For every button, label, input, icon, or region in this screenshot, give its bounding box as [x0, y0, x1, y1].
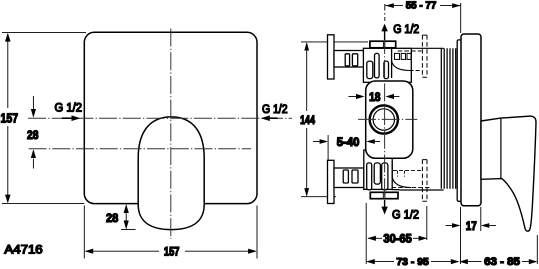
dimension 17: arrows	[446, 225, 453, 227]
dimension 28 upper: down arrow	[32, 96, 34, 110]
svg-text:G 1/2: G 1/2	[392, 208, 419, 222]
dimension 73-95 and 63-85: shared baseline	[368, 261, 537, 263]
svg-text:28: 28	[27, 128, 39, 142]
vertical centerline of valve	[384, 36, 386, 202]
dimension 157 horizontal: dim line	[86, 250, 256, 252]
dashed wall strip top	[422, 35, 427, 77]
svg-text:28: 28	[106, 211, 119, 225]
hatch block (adjustable sleeve end)	[441, 48, 455, 189]
horizontal centerline through cartridge	[358, 118, 417, 120]
top port G1/2	[370, 41, 396, 48]
svg-text:G 1/2: G 1/2	[262, 104, 288, 116]
top pipe fins	[345, 54, 349, 66]
handle hub/grip divider	[500, 118, 502, 178]
sleeve bottom edge	[392, 189, 443, 191]
upper internals: small thread rects	[395, 53, 400, 59]
upper internals: divider line	[391, 49, 393, 79]
dimension 28 upper: up arrow	[32, 159, 34, 169]
bottom inlet pipe	[334, 168, 364, 188]
dimension 144: dim line	[306, 44, 308, 195]
dashed wall strip bottom	[422, 160, 427, 202]
dimension 157 vertical: extension line bottom	[2, 203, 84, 205]
escutcheon plate (side view)	[461, 34, 481, 206]
extension line right end	[536, 235, 538, 264]
extension line at handle bottom	[121, 229, 136, 231]
handle (side view)	[481, 116, 536, 231]
dimension 5-40: extension line	[327, 135, 329, 161]
dimension 157 vertical: dimension line with arrowheads	[7, 34, 9, 202]
dimension 157 vertical: extension line top	[2, 32, 86, 34]
svg-text:30-65: 30-65	[383, 232, 412, 246]
hidden line right of shoulder	[410, 70, 421, 72]
horizontal centerline lower	[29, 148, 251, 150]
dimension 5-40: arrows	[313, 141, 320, 143]
dimension 55-77: dim line	[385, 5, 460, 7]
svg-text:144: 144	[300, 115, 315, 127]
G 1/2 top arrow (up)	[384, 31, 386, 40]
top inlet pipe	[334, 51, 364, 68]
hidden thread line top	[398, 50, 422, 52]
upper internals: shoulder arc	[392, 61, 410, 71]
dimension 55-77: extension lines	[384, 4, 386, 21]
cartridge circles	[370, 105, 398, 133]
bottom port G1/2	[370, 192, 398, 198]
bottom pipe fins	[343, 170, 348, 183]
G 1/2 arrow right (points left at plate edge)	[268, 117, 278, 119]
svg-text:157: 157	[1, 110, 19, 125]
svg-text:157: 157	[164, 246, 180, 258]
upper internals: slot capsules	[367, 61, 373, 79]
svg-text:G 1/2: G 1/2	[393, 24, 419, 36]
vertical centerline	[170, 29, 172, 240]
svg-text:63 - 85: 63 - 85	[484, 256, 520, 268]
svg-text:G 1/2: G 1/2	[55, 103, 83, 115]
dimension 30-65: extension lines	[365, 203, 367, 264]
svg-text:18: 18	[369, 92, 381, 104]
handle knob (front view)	[138, 117, 204, 230]
G 1/2 arrow left (points right at plate edge)	[62, 117, 74, 119]
svg-text:55 - 77: 55 - 77	[406, 0, 437, 11]
bottom wall bracket bar	[328, 160, 335, 203]
bottom pipe centerline (drawn under shapes)	[358, 187, 431, 189]
svg-text:A4716: A4716	[4, 244, 42, 256]
svg-text:73 - 95: 73 - 95	[396, 256, 429, 268]
dimension 144: extension lines	[301, 41, 368, 43]
dimension 28 lower (handle protrusion): dim line with two arrowheads	[125, 212, 127, 222]
dimension 18: arrows	[348, 96, 357, 98]
svg-text:17: 17	[466, 221, 477, 233]
dimension 30-65: dim line	[368, 237, 426, 239]
dimension 17: extension lines	[461, 207, 481, 264]
dimension 157 horizontal: extension lines	[83, 206, 85, 259]
hidden line lower outlet	[393, 169, 422, 171]
top wall bracket bar	[328, 35, 335, 79]
escutcheon rear lip	[457, 40, 461, 201]
valve body lower column	[364, 150, 392, 189]
valve body upper column	[363, 48, 411, 82]
svg-text:5-40: 5-40	[337, 137, 360, 149]
sleeve top edge	[411, 47, 443, 49]
lower internals: shoulder arc mirrored	[392, 177, 411, 188]
horizontal centerline upper (inlet axis)	[28, 117, 292, 119]
G 1/2 bottom arrow (down)	[384, 200, 386, 207]
wall plate (front view)	[84, 32, 257, 203]
central cartridge body (rounded)	[366, 81, 413, 158]
lower internals: slot capsules	[367, 163, 372, 190]
